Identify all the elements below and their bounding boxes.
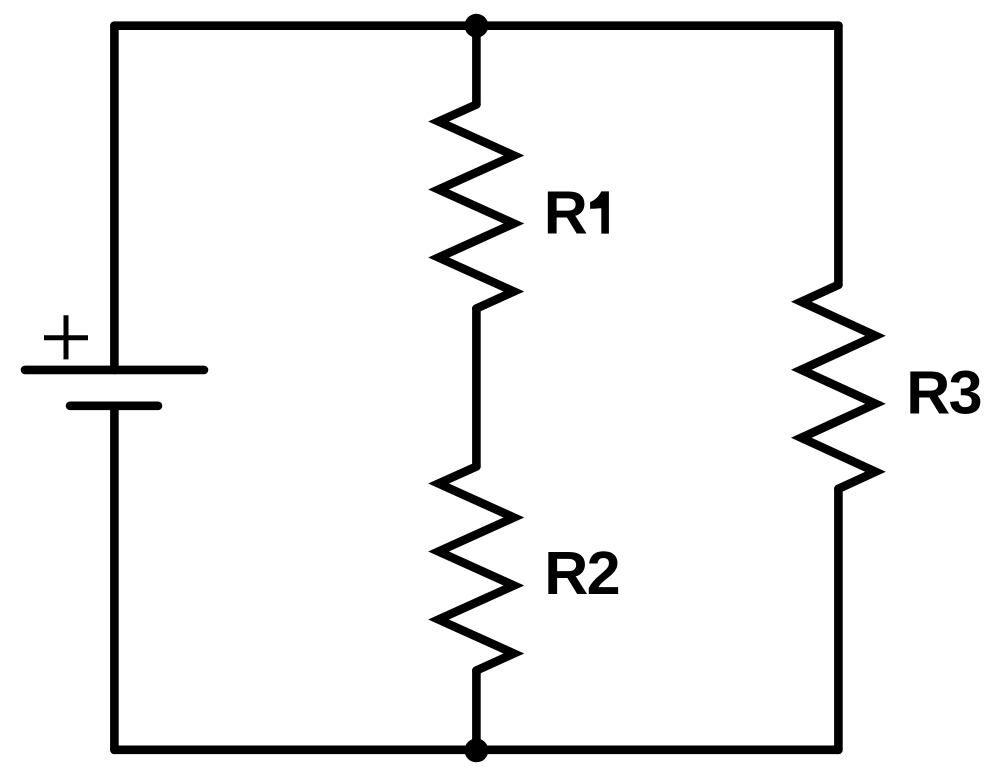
- wire left bottom segment (battery - to bottom rail): [110, 406, 119, 750]
- battery V1 negative plate: [70, 401, 158, 410]
- wire R2 bottom to node B: [472, 671, 481, 751]
- wire right bottom segment: [834, 489, 843, 750]
- wire left top segment (battery + to top rail): [110, 26, 119, 370]
- svg-text:R3: R3: [906, 359, 982, 427]
- wire node A to R1 top: [472, 26, 481, 105]
- resistor R2: [439, 467, 514, 671]
- node A junction dot: [465, 14, 489, 38]
- label R1: [544, 179, 609, 247]
- svg-text:R: R: [544, 179, 588, 247]
- battery plus sign: [44, 315, 88, 359]
- wire R1 bottom to R2 top: [472, 309, 481, 467]
- battery V1 positive plate: [25, 366, 204, 375]
- wire top horizontal: [114, 21, 838, 30]
- resistor R3: [801, 285, 875, 489]
- node B junction dot: [465, 739, 489, 763]
- resistor R1: [439, 105, 514, 309]
- svg-text:R2: R2: [544, 539, 620, 607]
- wire right top segment: [834, 26, 843, 285]
- wire bottom horizontal: [114, 745, 838, 754]
